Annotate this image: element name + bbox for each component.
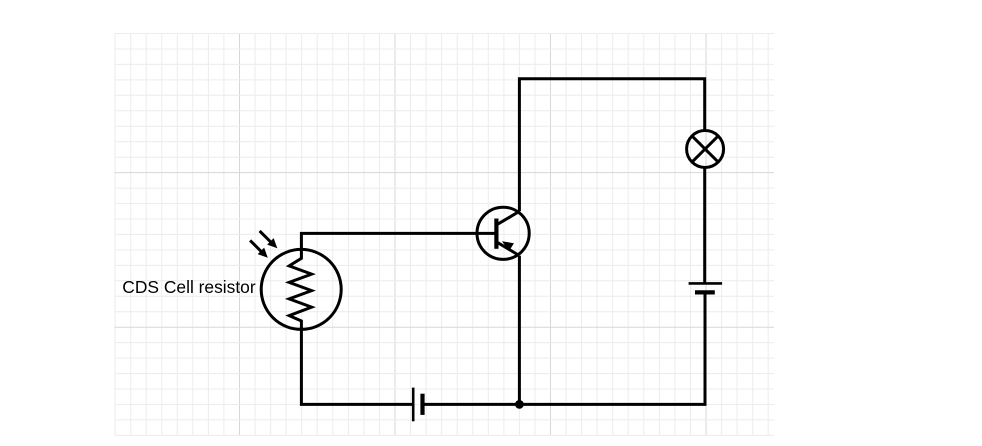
wire: battery B2 to CDS cell bottom — [301, 329, 413, 404]
transistor Q1 emitter arrowhead — [502, 241, 514, 251]
photoresistor zigzag element — [289, 249, 311, 329]
wire: CDS cell top to transistor base — [301, 233, 494, 249]
battery B2 (bottom) — [413, 388, 422, 422]
lamp LA1 — [687, 131, 724, 168]
junction node — [515, 400, 524, 409]
battery B1 (right) — [689, 283, 723, 292]
light arrow 2 — [250, 240, 268, 257]
wire: transistor emitter down to junction — [518, 256, 521, 405]
transistor Q1 (PNP) — [477, 207, 529, 259]
wire: transistor collector up and across to lamp — [519, 79, 704, 212]
wire: junction to battery B2 — [423, 403, 520, 406]
svg-text:CDS Cell resistor: CDS Cell resistor — [122, 277, 256, 297]
wire: battery B1 down and along bottom to junction — [519, 293, 705, 404]
wire: lamp to battery B1 — [703, 167, 706, 283]
photoresistor (CDS cell) body — [261, 249, 341, 329]
light arrow 1 — [260, 231, 278, 248]
